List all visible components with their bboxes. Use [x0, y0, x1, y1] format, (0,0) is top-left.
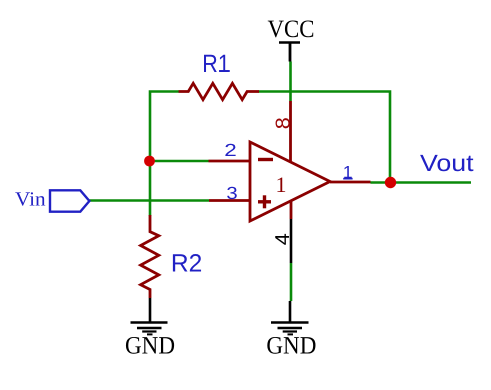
svg-text:GND: GND — [125, 333, 175, 360]
svg-text:2: 2 — [224, 140, 237, 160]
svg-text:8: 8 — [272, 117, 294, 129]
svg-text:R2: R2 — [171, 249, 202, 277]
svg-text:VCC: VCC — [268, 16, 315, 43]
svg-text:Vin: Vin — [15, 189, 46, 211]
svg-text:R1: R1 — [202, 50, 230, 78]
svg-text:4: 4 — [272, 233, 294, 245]
svg-text:3: 3 — [226, 183, 237, 203]
svg-text:Vout: Vout — [420, 150, 474, 176]
svg-text:1: 1 — [276, 172, 287, 197]
svg-text:GND: GND — [266, 333, 316, 360]
